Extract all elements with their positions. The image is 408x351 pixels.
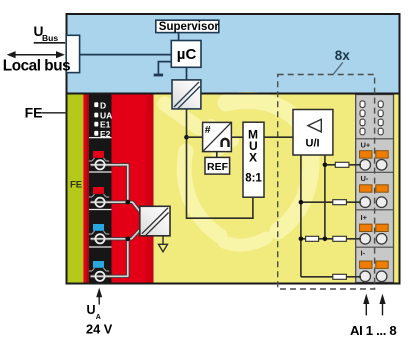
svg-text:A: A — [96, 314, 101, 321]
local bus double arrow — [7, 51, 65, 58]
power DC/DC converter (isolated) — [140, 206, 170, 236]
terminal cell U+ — [360, 141, 389, 171]
supervisor box U3 — [156, 20, 219, 32]
U_Bus underline — [34, 42, 65, 44]
FE lead line — [42, 112, 67, 114]
A/D converter — [203, 122, 232, 151]
bus connector block — [66, 35, 79, 72]
svg-text:Local bus: Local bus — [3, 58, 70, 75]
svg-text:24 V: 24 V — [86, 322, 113, 337]
wire to A/D — [187, 136, 203, 138]
shunt resistor I+ — [306, 236, 319, 241]
clamp terminal 2 (red) — [89, 187, 109, 197]
junction on supply rail — [184, 135, 189, 140]
resistor R U+ — [335, 162, 349, 167]
channel row U- : wire — [301, 201, 361, 203]
LED D — [94, 102, 98, 107]
supply wires casing (dark edge) — [91, 165, 140, 276]
supervisor to uC wire — [178, 33, 180, 41]
clamp terminal 4 (blue) — [89, 261, 109, 271]
wire junction dot (units 3-4) — [125, 236, 130, 241]
green FE stripe — [68, 94, 84, 283]
junction I+ left — [299, 237, 304, 242]
module frame border — [67, 14, 400, 284]
screw terminal circle 2 — [95, 198, 104, 207]
junction I+ right — [323, 237, 328, 242]
svg-text:X: X — [249, 151, 257, 165]
strip cell separators — [356, 139, 394, 247]
watermark swoosh — [165, 100, 311, 245]
terminal cell I- — [360, 248, 389, 281]
svg-text:Bus: Bus — [42, 33, 58, 43]
internal supply rail: DC/DC down, across, up to MUX — [187, 109, 253, 218]
A/D to MUX wire — [231, 136, 243, 138]
screw terminal circle 4 — [95, 272, 104, 281]
LED E2 — [94, 131, 98, 136]
ground bar — [154, 74, 163, 77]
blue communication section background — [67, 14, 400, 94]
uC ground branch — [158, 62, 170, 74]
channel row U+ : wire — [325, 164, 361, 166]
screw terminal circle 3 — [95, 234, 104, 243]
channel row I+ : wire — [301, 238, 361, 240]
svg-text:AI 1 ... 8: AI 1 ... 8 — [350, 323, 396, 338]
MUX to U/I wire — [264, 136, 293, 138]
earth ground below DC/DC — [159, 236, 168, 252]
svg-text:D: D — [100, 100, 106, 110]
microcontroller uC — [171, 41, 201, 68]
resistor R I- — [333, 274, 347, 279]
svg-text:U+: U+ — [361, 141, 371, 150]
U/I output rails — [300, 155, 302, 277]
REF box — [205, 157, 230, 174]
black terminal column — [89, 94, 112, 283]
red power stripe — [112, 94, 154, 283]
8x pointer tick — [333, 62, 343, 74]
supply wires core (light) — [91, 165, 140, 276]
junction U- — [299, 200, 304, 205]
channel row I- : wire — [301, 276, 361, 278]
svg-text:U-: U- — [361, 174, 369, 183]
clamp terminal 3 (blue) — [89, 224, 109, 234]
junction U+ — [323, 163, 328, 168]
dark red sliver — [87, 94, 89, 283]
svg-text:Supervisor: Supervisor — [159, 21, 220, 33]
svg-text:FE: FE — [25, 105, 43, 121]
blue/yellow boundary line — [67, 93, 400, 95]
LED UA — [94, 113, 98, 118]
AI channel arrow 2 — [379, 294, 385, 316]
right terminal strip background — [356, 95, 394, 283]
logic DC/DC converter — [172, 80, 201, 109]
local bus wire into uC — [80, 54, 171, 56]
series resistor I+ — [333, 236, 347, 241]
terminal unit separators (left column) — [89, 172, 112, 247]
bus pin contacts (8x) — [360, 101, 383, 135]
terminal cell U- — [360, 174, 389, 208]
resistor R U- — [333, 200, 347, 205]
svg-text:U: U — [87, 303, 96, 317]
LED block separator line — [89, 137, 112, 139]
8x dashed channel box — [278, 75, 375, 290]
LED E1 — [94, 122, 98, 127]
AI channel arrow 1 — [363, 294, 369, 316]
svg-text:I-: I- — [361, 248, 366, 257]
U/I input amplifier — [293, 110, 333, 156]
svg-text:8:1: 8:1 — [245, 173, 262, 185]
svg-text:µC: µC — [177, 46, 197, 63]
terminal cell I+ — [360, 213, 389, 244]
wire junction dot (units 1-2) — [125, 200, 130, 205]
svg-text:#: # — [205, 124, 211, 136]
A/D to REF wire — [216, 152, 218, 158]
multiplexer MUX 8:1 — [243, 122, 264, 197]
red sliver — [83, 94, 87, 283]
svg-text:FE: FE — [70, 180, 82, 191]
svg-text:8x: 8x — [335, 48, 351, 63]
uC to DC/DC wire — [186, 67, 188, 80]
clamp terminal 1 (red) — [89, 151, 109, 161]
svg-text:U/I: U/I — [306, 138, 320, 150]
svg-text:I+: I+ — [361, 213, 368, 222]
svg-text:REF: REF — [207, 161, 229, 173]
UA supply arrow — [96, 288, 102, 305]
yellow analog section background — [67, 94, 400, 284]
screw terminal circle 1 — [95, 160, 104, 169]
